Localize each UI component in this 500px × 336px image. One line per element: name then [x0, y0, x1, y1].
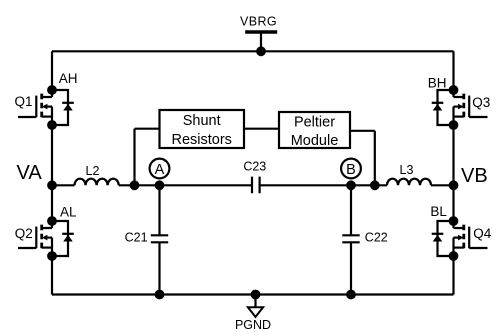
- svg-text:Resistors: Resistors: [171, 132, 231, 148]
- svg-text:C23: C23: [243, 160, 266, 174]
- svg-text:Module: Module: [291, 133, 339, 149]
- svg-text:AL: AL: [60, 204, 77, 219]
- svg-text:B: B: [346, 162, 356, 178]
- svg-text:PGND: PGND: [235, 318, 271, 332]
- svg-text:VB: VB: [461, 165, 488, 187]
- svg-text:L2: L2: [86, 164, 100, 178]
- svg-text:VA: VA: [17, 162, 43, 184]
- svg-text:VBRG: VBRG: [240, 14, 277, 28]
- svg-text:A: A: [155, 162, 165, 178]
- svg-text:Q2: Q2: [15, 226, 33, 241]
- svg-text:Q1: Q1: [15, 94, 33, 109]
- svg-text:C21: C21: [125, 230, 148, 244]
- svg-text:BH: BH: [428, 76, 447, 91]
- svg-text:AH: AH: [59, 71, 78, 86]
- svg-text:BL: BL: [430, 204, 447, 219]
- svg-text:Peltier: Peltier: [294, 114, 335, 130]
- svg-text:Q4: Q4: [473, 226, 492, 241]
- svg-text:Q3: Q3: [472, 95, 490, 110]
- svg-text:Shunt: Shunt: [183, 113, 221, 129]
- svg-text:C22: C22: [365, 230, 388, 244]
- svg-text:L3: L3: [400, 163, 414, 177]
